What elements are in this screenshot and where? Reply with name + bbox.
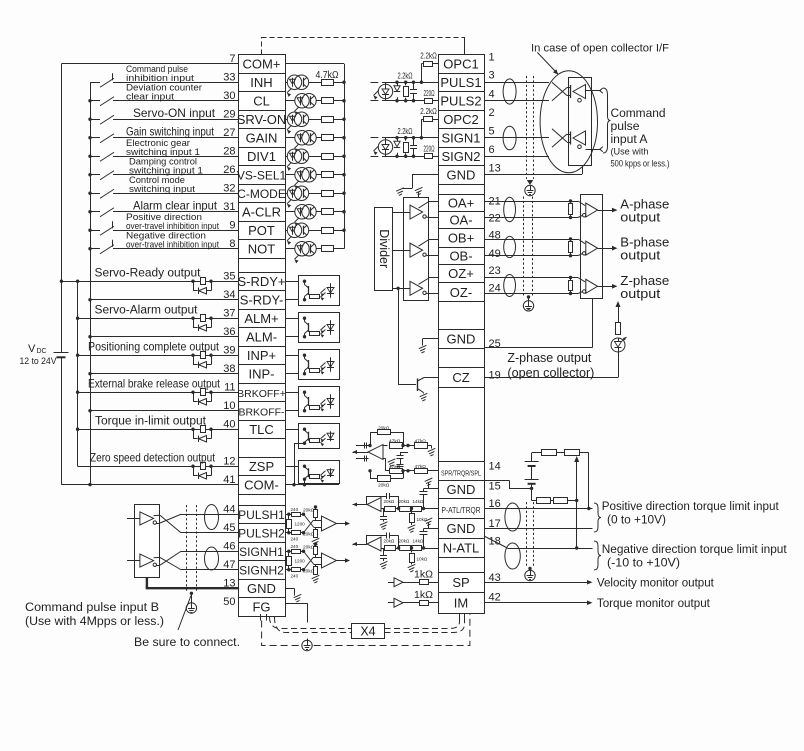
- svg-text:GAIN: GAIN: [246, 130, 278, 145]
- svg-text:10kΩ: 10kΩ: [417, 557, 428, 562]
- svg-text:20kΩ: 20kΩ: [378, 483, 390, 489]
- svg-text:(Use with 4Mpps or less.): (Use with 4Mpps or less.): [25, 614, 164, 628]
- svg-text:240: 240: [291, 536, 299, 541]
- svg-text:Positioning complete output: Positioning complete output: [88, 340, 220, 353]
- svg-text:NOT: NOT: [248, 241, 276, 256]
- svg-text:BRKOFF+: BRKOFF+: [237, 388, 286, 400]
- svg-text:42: 42: [489, 592, 501, 604]
- svg-text:7: 7: [229, 53, 235, 65]
- svg-text:OB+: OB+: [448, 230, 474, 245]
- svg-text:(-10 to +10V): (-10 to +10V): [607, 556, 680, 570]
- svg-text:OB-: OB-: [449, 248, 472, 263]
- svg-text:pulse: pulse: [611, 119, 640, 133]
- svg-text:2.2kΩ: 2.2kΩ: [398, 71, 413, 80]
- svg-text:20kΩ: 20kΩ: [384, 499, 395, 504]
- svg-text:VS-SEL1: VS-SEL1: [237, 168, 287, 182]
- svg-text:5: 5: [489, 126, 495, 138]
- svg-text:output: output: [620, 210, 660, 225]
- svg-text:CL: CL: [253, 93, 270, 108]
- svg-text:INH: INH: [250, 75, 272, 90]
- svg-text:Gain switching input: Gain switching input: [126, 124, 215, 138]
- svg-text:3: 3: [489, 70, 495, 82]
- svg-text:INP-: INP-: [249, 366, 275, 381]
- svg-text:External brake release output: External brake release output: [88, 377, 221, 390]
- svg-text:Torque monitor output: Torque monitor output: [597, 596, 711, 610]
- svg-text:TLC: TLC: [249, 422, 274, 437]
- svg-text:20kΩ: 20kΩ: [303, 508, 315, 514]
- svg-text:27: 27: [223, 127, 235, 139]
- svg-text:36: 36: [223, 326, 235, 338]
- svg-text:25: 25: [489, 338, 501, 350]
- svg-text:X4: X4: [360, 625, 375, 639]
- svg-text:500 kpps or less.): 500 kpps or less.): [611, 159, 670, 169]
- svg-text:PULSH2: PULSH2: [238, 526, 285, 540]
- svg-text:240: 240: [291, 544, 299, 549]
- svg-text:2.2kΩ: 2.2kΩ: [420, 51, 437, 60]
- svg-text:PULSH1: PULSH1: [238, 508, 285, 522]
- svg-text:1200: 1200: [295, 522, 306, 527]
- svg-text:PULS1: PULS1: [440, 75, 481, 90]
- svg-text:COM+: COM+: [243, 56, 281, 71]
- svg-text:CZ: CZ: [452, 370, 469, 385]
- svg-text:C-MODE: C-MODE: [237, 187, 286, 201]
- svg-text:50: 50: [223, 596, 235, 608]
- svg-text:49: 49: [489, 248, 501, 260]
- svg-text:4: 4: [489, 89, 495, 101]
- svg-text:GND: GND: [447, 482, 476, 497]
- svg-text:GND: GND: [447, 331, 476, 346]
- svg-text:37: 37: [223, 307, 235, 319]
- svg-text:(0 to +10V): (0 to +10V): [607, 513, 666, 527]
- svg-text:6: 6: [489, 144, 495, 156]
- svg-text:220Ω: 220Ω: [424, 144, 435, 153]
- svg-text:10: 10: [223, 400, 235, 412]
- svg-text:SPR/TRQR/SPL: SPR/TRQR/SPL: [441, 471, 481, 478]
- svg-text:32: 32: [223, 182, 235, 194]
- svg-text:SIGN2: SIGN2: [441, 149, 480, 164]
- svg-text:switching input: switching input: [129, 184, 195, 194]
- svg-text:1200: 1200: [295, 559, 306, 564]
- svg-text:DC: DC: [37, 348, 47, 355]
- svg-text:1kΩ: 1kΩ: [414, 568, 433, 580]
- svg-text:Alarm clear input: Alarm clear input: [133, 198, 218, 212]
- svg-text:38: 38: [223, 363, 235, 375]
- svg-text:19: 19: [489, 370, 501, 382]
- svg-text:POT: POT: [248, 223, 275, 238]
- svg-text:12: 12: [223, 455, 235, 467]
- svg-text:26: 26: [223, 164, 235, 176]
- svg-text:OPC2: OPC2: [443, 112, 478, 127]
- svg-text:Positive direction torque limi: Positive direction torque limit input: [602, 499, 780, 513]
- svg-text:OA+: OA+: [448, 195, 474, 210]
- svg-text:220Ω: 220Ω: [424, 89, 435, 98]
- svg-text:OZ+: OZ+: [448, 266, 474, 281]
- svg-text:(Use with: (Use with: [611, 147, 649, 157]
- svg-text:Z-phase output: Z-phase output: [507, 351, 591, 365]
- svg-text:Divider: Divider: [377, 229, 391, 268]
- svg-text:Zero speed detection output: Zero speed detection output: [90, 451, 216, 464]
- svg-text:N-ATL: N-ATL: [443, 541, 480, 556]
- svg-text:S-RDY-: S-RDY-: [240, 292, 284, 307]
- svg-text:45: 45: [223, 522, 235, 534]
- svg-text:OPC1: OPC1: [443, 56, 478, 71]
- svg-text:switching input 1: switching input 1: [129, 165, 203, 175]
- svg-text:2.2kΩ: 2.2kΩ: [398, 127, 413, 136]
- svg-text:Command: Command: [611, 106, 666, 120]
- svg-text:24: 24: [489, 283, 501, 295]
- svg-text:47kΩ: 47kΩ: [415, 464, 427, 470]
- svg-text:FG: FG: [252, 599, 270, 614]
- svg-text:4.7kΩ: 4.7kΩ: [316, 70, 339, 81]
- svg-text:DIV1: DIV1: [247, 149, 276, 164]
- svg-text:S-RDY+: S-RDY+: [237, 274, 285, 289]
- svg-text:10kΩ: 10kΩ: [417, 517, 428, 522]
- svg-text:240: 240: [291, 573, 299, 578]
- svg-text:Command pulse input B: Command pulse input B: [25, 600, 159, 614]
- svg-text:12 to 24V: 12 to 24V: [20, 356, 58, 367]
- svg-text:Velocity monitor output: Velocity monitor output: [597, 575, 715, 589]
- svg-text:GND: GND: [247, 581, 276, 596]
- svg-text:Be sure to connect.: Be sure to connect.: [134, 635, 240, 649]
- svg-text:GND: GND: [447, 167, 476, 182]
- svg-text:31: 31: [223, 201, 235, 213]
- svg-text:44: 44: [223, 503, 235, 515]
- svg-text:13: 13: [489, 163, 501, 175]
- svg-text:SIGN1: SIGN1: [441, 130, 480, 145]
- svg-text:GND: GND: [447, 521, 476, 536]
- svg-text:V: V: [28, 343, 36, 355]
- svg-text:SIGNH2: SIGNH2: [239, 563, 284, 577]
- svg-text:33: 33: [223, 71, 235, 83]
- svg-text:INP+: INP+: [247, 348, 276, 363]
- svg-text:output: output: [620, 286, 660, 301]
- svg-text:30: 30: [223, 90, 235, 102]
- svg-text:IM: IM: [454, 595, 468, 610]
- svg-text:40: 40: [223, 418, 235, 430]
- svg-text:20kΩ: 20kΩ: [399, 499, 410, 504]
- svg-text:39: 39: [223, 344, 235, 356]
- svg-text:COM-: COM-: [244, 477, 279, 492]
- svg-text:20kΩ: 20kΩ: [303, 545, 315, 551]
- svg-text:23: 23: [489, 265, 501, 277]
- svg-text:(open collector): (open collector): [507, 366, 594, 380]
- svg-text:ZSP: ZSP: [249, 459, 274, 474]
- svg-text:SP: SP: [452, 575, 469, 590]
- svg-text:input A: input A: [611, 132, 649, 146]
- svg-text:20kΩ: 20kΩ: [378, 426, 390, 432]
- svg-text:20kΩ: 20kΩ: [303, 569, 315, 575]
- svg-text:BRKOFF-: BRKOFF-: [238, 406, 285, 418]
- svg-text:22: 22: [489, 213, 501, 225]
- svg-text:Negative direction torque limi: Negative direction torque limit input: [602, 542, 788, 556]
- svg-text:15: 15: [489, 481, 501, 493]
- svg-text:In case of open collector I/F: In case of open collector I/F: [531, 43, 669, 55]
- svg-text:20kΩ: 20kΩ: [399, 539, 410, 544]
- svg-text:47kΩ: 47kΩ: [389, 439, 401, 445]
- svg-text:1: 1: [489, 52, 495, 64]
- svg-text:14: 14: [489, 461, 501, 473]
- svg-text:Servo-Ready output: Servo-Ready output: [95, 265, 202, 279]
- svg-text:ALM-: ALM-: [246, 329, 277, 344]
- svg-text:47kΩ: 47kΩ: [415, 439, 427, 445]
- svg-text:inhibition input: inhibition input: [126, 73, 195, 83]
- svg-text:47kΩ: 47kΩ: [389, 464, 401, 470]
- svg-text:2: 2: [489, 107, 495, 119]
- svg-text:46: 46: [223, 540, 235, 552]
- svg-text:Servo-ON input: Servo-ON input: [133, 106, 216, 120]
- svg-text:Torque in-limit output: Torque in-limit output: [95, 413, 207, 427]
- svg-text:over-travel inhibition input: over-travel inhibition input: [126, 221, 219, 231]
- svg-text:over-travel inhibition input: over-travel inhibition input: [126, 239, 219, 249]
- svg-text:8: 8: [229, 238, 235, 250]
- svg-text:20kΩ: 20kΩ: [303, 532, 315, 538]
- svg-text:2.2kΩ: 2.2kΩ: [420, 107, 437, 116]
- svg-text:switching input 1: switching input 1: [126, 147, 200, 157]
- svg-text:Servo-Alarm output: Servo-Alarm output: [95, 302, 199, 316]
- svg-text:1kΩ: 1kΩ: [414, 589, 433, 601]
- svg-text:A-CLR: A-CLR: [242, 204, 281, 219]
- svg-text:28: 28: [223, 145, 235, 157]
- svg-text:output: output: [620, 248, 660, 263]
- svg-text:SIGNH1: SIGNH1: [239, 545, 284, 559]
- svg-text:35: 35: [223, 270, 235, 282]
- svg-text:OZ-: OZ-: [450, 285, 472, 300]
- svg-text:47: 47: [223, 559, 235, 571]
- svg-text:14kΩ: 14kΩ: [413, 499, 424, 504]
- svg-text:9: 9: [229, 219, 235, 231]
- svg-text:29: 29: [223, 108, 235, 120]
- svg-text:240: 240: [291, 507, 299, 512]
- svg-text:clear input: clear input: [126, 91, 175, 101]
- svg-text:P-ATL/TRQR: P-ATL/TRQR: [442, 505, 481, 515]
- svg-text:SRV-ON: SRV-ON: [237, 112, 287, 127]
- svg-text:34: 34: [223, 289, 235, 301]
- svg-text:41: 41: [223, 474, 235, 486]
- svg-text:11: 11: [224, 381, 235, 393]
- svg-text:20kΩ: 20kΩ: [384, 539, 395, 544]
- svg-text:PULS2: PULS2: [440, 93, 481, 108]
- svg-text:ALM+: ALM+: [244, 311, 278, 326]
- svg-text:OA-: OA-: [449, 213, 472, 228]
- svg-text:14kΩ: 14kΩ: [413, 539, 424, 544]
